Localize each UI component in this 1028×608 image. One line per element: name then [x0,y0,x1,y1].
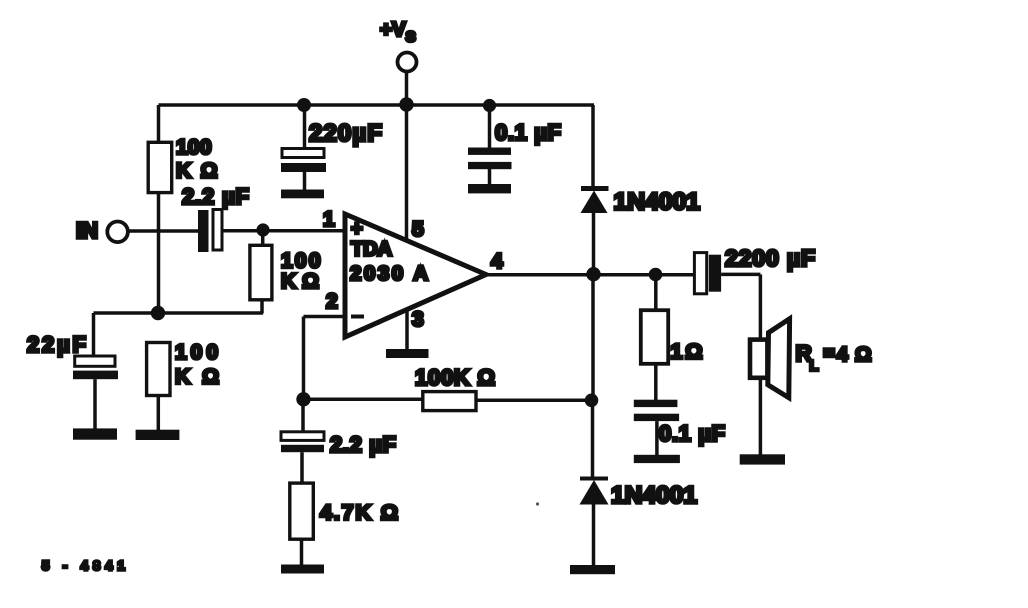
capacitor C2 0.1uF top plate [468,148,511,155]
wire +Vs drop to rail [405,72,409,106]
svg-text:4: 4 [491,250,503,273]
diode D1 1N4001 triangle [581,191,608,214]
capacitor C1 220uF top plate [282,149,324,158]
svg-text:K Ω: K Ω [281,270,319,293]
junction dot left node [151,306,165,320]
junction dot output/feedback [585,394,599,408]
svg-text:0.1 µF: 0.1 µF [659,421,725,446]
speaker RL horn [768,319,790,398]
op-amp minus input mark [351,315,364,319]
wire output node down to feedback node [591,274,595,400]
capacitor C4 22uF bottom plate [73,371,118,380]
svg-text:2.2 µF: 2.2 µF [182,184,249,209]
wire R6 to C6 [654,362,658,400]
capacitor C3 2.2uF right plate [213,210,222,251]
resistor R4 100K body [423,392,476,411]
ground 22uF [73,428,117,439]
stray print dot [536,502,539,505]
diode D2 1N4001 cathode bar [580,477,608,481]
wire left vertical from rail [157,105,161,143]
svg-text:4.7K Ω: 4.7K Ω [320,501,398,525]
wire R3 bottom lead [157,396,161,430]
wire pin2 node down to C5 [301,399,305,432]
junction dot rail/+Vs [399,97,413,111]
svg-text:3: 3 [412,308,424,331]
svg-text:+: + [351,218,363,240]
svg-text:1 Ω: 1 Ω [671,340,703,364]
wire D2 to ground [592,505,596,566]
capacitor C3 2.2uF left plate [198,210,209,252]
svg-text:IN: IN [76,218,98,243]
wire pin 2 horizontal [304,315,346,319]
power terminal +Vs circle [398,53,417,72]
ground D2 [570,565,615,574]
svg-text:100: 100 [176,136,212,159]
ground pin 3 [386,349,429,358]
resistor R1 100K body [148,142,172,192]
svg-text:100K Ω: 100K Ω [415,365,495,390]
ground R3 [136,430,180,440]
junction dot output/1ohm [649,268,663,282]
wire C5 to R5 [300,452,304,483]
svg-text:1N4001: 1N4001 [611,482,697,509]
svg-text:220µF: 220µF [309,120,382,147]
svg-text:1: 1 [323,208,335,231]
junction dot input node [256,223,269,236]
wire output line [486,273,695,277]
capacitor C7 2200uF right plate [709,255,721,292]
svg-text:2200 µF: 2200 µF [725,245,815,271]
svg-text:=: = [824,344,835,365]
resistor R2 100K body [250,245,272,299]
wire C7 to speaker corner [721,273,760,277]
capacitor C5 2.2uF bottom plate [281,445,324,452]
svg-text:5 - 4841: 5 - 4841 [42,558,130,573]
ground 220uF [281,190,324,199]
resistor R3 100K body [147,343,170,396]
wire C6 bottom lead [655,421,659,455]
svg-text:4: 4 [837,344,849,366]
ground speaker [740,454,785,464]
resistor R5 4.7K body [290,483,314,539]
wire R2 top lead [261,230,265,246]
wire pin 2 vertical [302,317,306,400]
capacitor C5 2.2uF top plate [281,432,324,441]
svg-text:+VS: +VS [380,18,416,46]
capacitor C4 22uF top plate [75,356,115,366]
speaker RL body [750,340,767,378]
svg-text:0.1 µF: 0.1 µF [495,120,561,145]
op-amp U1 TDA2030A body [345,214,486,337]
ground C6 [634,455,680,463]
wire 0.1uF top lead [488,105,492,148]
svg-text:2.2 µF: 2.2 µF [330,432,396,457]
svg-text:L: L [810,358,819,374]
svg-text:TDA: TDA [351,239,392,261]
wire 220uF top lead [303,105,307,149]
wire C3 to pin 1 [222,229,345,233]
svg-text:Ω: Ω [855,343,871,366]
svg-text:K Ω: K Ω [176,159,218,182]
wire output to R6 [654,275,658,312]
input terminal circle [107,222,128,243]
wire 220uF bottom lead [303,172,307,190]
wire 22uF bottom lead [93,379,97,429]
svg-text:5: 5 [412,218,424,241]
junction dot feedback node [296,392,310,406]
resistor R6 1 ohm body [641,310,668,364]
svg-text:1N4001: 1N4001 [614,189,701,216]
wire R2 bottom lead [260,300,264,314]
svg-text:100: 100 [175,341,218,364]
junction dot rail/220uF [297,98,311,112]
capacitor C6 0.1uF bottom plate [634,414,679,421]
wire speaker drop [759,274,763,338]
svg-text:2: 2 [326,290,338,313]
capacitor C6 0.1uF top plate [634,400,678,407]
wire horizontal bias node [94,311,264,315]
wire pin 5 supply [405,105,409,241]
svg-text:22µF: 22µF [27,332,86,357]
wire pin 3 to ground [405,308,409,350]
wire speaker to ground [759,380,763,455]
svg-text:K Ω: K Ω [175,366,219,389]
capacitor C7 2200uF left plate [694,253,706,294]
ground R5 [281,565,324,574]
junction dot output/diodes [586,267,600,281]
wire 0.1uF bottom lead [488,169,492,185]
wire feedback left [304,398,424,402]
wire feedback right [476,399,592,403]
wire top supply rail [159,103,595,107]
wire R5 bottom lead [300,539,304,565]
junction dot rail/0.1uF [483,99,496,112]
ground 0.1uF [468,184,511,193]
wire D1 to output [592,213,596,274]
capacitor C1 220uF bottom plate [281,163,326,172]
wire rail down to D1 [591,105,595,187]
diode D1 1N4001 cathode bar [581,186,609,191]
diode D2 1N4001 triangle [580,480,609,505]
wire feedback node down to D2 [591,400,595,477]
wire IN to C3 [128,229,198,233]
capacitor C2 0.1uF bottom plate [468,162,512,169]
wire left vertical middle [157,193,161,314]
wire 22uF drop [92,313,96,357]
